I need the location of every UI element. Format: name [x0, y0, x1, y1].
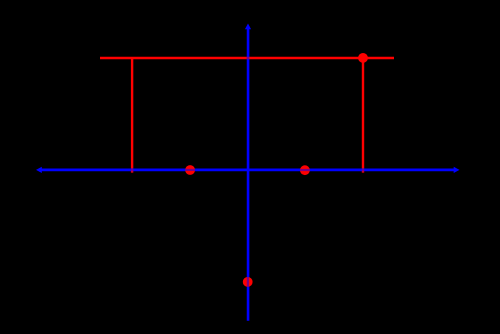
y-axis — [245, 24, 251, 321]
x-axis left arrowhead — [36, 167, 42, 173]
point P1 on red line (363,58) — [358, 53, 368, 63]
red segment vertical left x=132 — [131, 57, 133, 172]
x-axis — [36, 167, 460, 173]
x-axis right arrowhead — [454, 167, 460, 173]
blend patch: x-axis over right red vertical — [362, 169, 364, 171]
point P4 on y-axis (248,282) — [243, 277, 253, 287]
blend band: x-axis across point P2 — [185, 169, 195, 171]
red segment vertical right x=363 — [362, 57, 364, 172]
blend band: y-axis across point P4 — [247, 277, 249, 287]
point P3 on x-axis (305,170) — [300, 165, 310, 175]
y-axis top arrowhead — [245, 24, 251, 30]
point P2 on x-axis (190,170) — [185, 165, 195, 175]
blend patch: x-axis over left red vertical — [131, 169, 133, 171]
red segment horizontal y=58 — [100, 57, 394, 60]
blend patch: y-axis over red horizontal line — [247, 57, 250, 60]
blend band: x-axis across point P3 — [300, 169, 310, 171]
